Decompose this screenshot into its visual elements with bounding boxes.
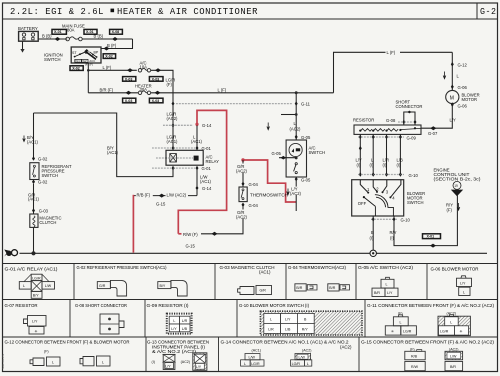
battery B1 [19, 31, 39, 41]
svg-text:(AC2): (AC2) [447, 312, 456, 316]
svg-text:G-03: G-03 [39, 208, 49, 213]
red junction dot G-14 [195, 123, 198, 126]
direction arrow L/Y [287, 189, 290, 195]
svg-text:R/W (F): R/W (F) [183, 232, 198, 237]
red junction dot thermoswitch top [241, 158, 244, 161]
svg-text:G-14 CONNECTOR BETWEEN A/C NO.: G-14 CONNECTOR BETWEEN A/C NO.1 (AC1) & … [221, 340, 350, 345]
svg-text:(AC1): (AC1) [252, 349, 261, 353]
svg-text:X-03: X-03 [125, 77, 133, 81]
svg-text:HEATER & AIR CONDITIONER: HEATER & AIR CONDITIONER [117, 6, 258, 17]
svg-text:G-14: G-14 [202, 123, 212, 128]
svg-text:R/Y: R/Y [302, 328, 309, 332]
svg-text:80A: 80A [67, 27, 75, 32]
svg-text:G-05: G-05 [301, 177, 311, 182]
svg-text:L: L [102, 361, 104, 365]
legend grid borders [3, 264, 498, 372]
connector marker G-01 left top [172, 146, 175, 151]
legend G-11 connector AC2 [438, 312, 470, 336]
svg-text:L/Y: L/Y [387, 291, 393, 295]
wire thermoswitch top [242, 160, 244, 187]
svg-text:G-01: G-01 [202, 166, 212, 171]
svg-text:SWITCH: SWITCH [407, 200, 424, 205]
wire G-05 left stub [279, 157, 296, 159]
svg-text:LG/R: LG/R [440, 330, 449, 334]
svg-text:G-14: G-14 [202, 186, 212, 191]
svg-text:B (F): B (F) [107, 43, 117, 48]
connector marker G-02 top [32, 156, 35, 161]
wire A/C switch feed vertical [295, 93, 297, 140]
ignition switch SW1 [71, 47, 101, 63]
svg-text:L/R: L/R [182, 319, 188, 323]
svg-text:2.2L: EGI & 2.6L: 2.2L: EGI & 2.6L [10, 6, 104, 17]
connector marker G-01 right top [196, 146, 199, 151]
connector arrow 2 [112, 37, 118, 41]
wire label G/R (AC2) bottom [237, 210, 250, 219]
connector marker G-11 right [295, 101, 298, 106]
red nub at R/W label [178, 233, 181, 235]
svg-text:L/B: L/B [285, 328, 291, 332]
title bar G-2 divider [476, 3, 478, 19]
wire L (AC1) vertical [196, 127, 198, 151]
connector marker G-11 left [172, 101, 175, 106]
svg-text:L/Y: L/Y [450, 118, 456, 123]
B/Y loop wire top [34, 113, 174, 177]
svg-text:R/B: R/B [411, 355, 418, 359]
connector box X-01 a [52, 29, 66, 34]
thermoswitch box [239, 187, 247, 202]
legend G-01 connector [19, 274, 54, 298]
svg-text:G-02: G-02 [38, 156, 48, 161]
svg-text:X-02: X-02 [105, 55, 113, 59]
wire ignition switch down [87, 63, 89, 93]
svg-text:LG/R: LG/R [403, 330, 412, 334]
svg-text:(I): (I) [383, 163, 388, 168]
legend G-15 connector AC2 [445, 351, 463, 370]
direction arrow B/Y [23, 136, 26, 142]
svg-text:L/Y: L/Y [285, 318, 291, 322]
connector box X-03 a1 [123, 77, 136, 82]
svg-text:S00-X0-PS: S00-X0-PS [1, 354, 5, 369]
legend G-03 connector [238, 286, 272, 295]
svg-text:L/W: L/W [450, 355, 457, 359]
svg-text:L (F): L (F) [218, 87, 227, 92]
wire corner down to B(F) [101, 39, 133, 49]
connector marker G-08 b [414, 120, 417, 125]
svg-text:THERMOSWITCH: THERMOSWITCH [250, 192, 288, 197]
connector marker G-14 lower [196, 186, 199, 191]
wire R/B (F) label [136, 192, 153, 197]
legend G-12 connector a [30, 357, 60, 366]
svg-text:IG1: IG1 [75, 59, 80, 63]
junction dot stub [295, 113, 298, 116]
wire label L (F) top [386, 49, 401, 55]
svg-text:L/R: L/R [268, 328, 274, 332]
G-01 dotted link top [152, 147, 197, 149]
connector box X-03 b2 [149, 98, 163, 103]
legend G-13 connector b [193, 353, 207, 371]
svg-text:B: B [371, 230, 374, 235]
svg-text:RESISTOR: RESISTOR [353, 118, 374, 123]
svg-text:L: L [52, 361, 54, 365]
svg-text:L/B: L/B [182, 327, 188, 331]
svg-text:M: M [450, 95, 454, 101]
svg-text:X-03: X-03 [152, 77, 160, 81]
svg-text:G-10: G-10 [401, 218, 411, 223]
G-10 dotted link top [358, 174, 404, 176]
connector marker G-03 [32, 208, 35, 213]
svg-text:L: L [244, 362, 246, 366]
svg-text:G-15: G-15 [186, 243, 196, 248]
connector marker G-14 on L [196, 123, 199, 128]
battery ground arrow [20, 49, 24, 53]
connector markers G-09 row [359, 135, 362, 140]
junction dot inside A/C switch [295, 157, 298, 160]
svg-text:G-15: G-15 [156, 202, 166, 207]
svg-text:R/B (F): R/B (F) [137, 193, 151, 198]
svg-text:L: L [463, 290, 465, 294]
svg-text:L: L [270, 318, 272, 322]
svg-text:X-01: X-01 [86, 30, 94, 34]
svg-text:B/R: B/R [329, 286, 335, 290]
svg-text:LG/R: LG/R [32, 276, 41, 280]
svg-text:X-03: X-03 [125, 99, 133, 103]
wire up corner to top L(F) run [334, 52, 453, 93]
svg-text:BP: BP [94, 51, 99, 55]
svg-text:G-01 A/C RELAY (AC1): G-01 A/C RELAY (AC1) [5, 267, 59, 272]
svg-text:L/W: L/W [249, 356, 256, 360]
G-11 dotted link [176, 103, 292, 105]
svg-text:G-11: G-11 [301, 101, 311, 106]
connector markers G-10 bottom [372, 217, 375, 222]
connector marker G-01 left bottom [172, 166, 175, 171]
connector marker G-06 top [451, 85, 454, 90]
svg-text:R/W: R/W [411, 365, 419, 369]
svg-text:(AC1): (AC1) [27, 139, 39, 144]
svg-text:B (B): B (B) [94, 34, 104, 39]
legend G-08 connector [100, 314, 124, 334]
resistor box [354, 125, 421, 134]
red wire R/B to ground bus [132, 195, 134, 253]
svg-text:L/Y: L/Y [32, 320, 38, 324]
battery ground wire [22, 41, 24, 49]
blower motor [446, 90, 459, 103]
connector arrow L(F) [127, 68, 133, 72]
svg-text:G-02: G-02 [38, 180, 48, 185]
svg-text:BATTERY: BATTERY [18, 26, 38, 31]
svg-text:B/R (F): B/R (F) [100, 87, 114, 92]
svg-text:X-01: X-01 [427, 235, 435, 239]
connector marker G-01 right bottom [196, 166, 199, 171]
wire R/Y to ECU [394, 196, 457, 246]
wire blower feed down [451, 52, 453, 90]
svg-text:& A/C NO.2 (AC2): & A/C NO.2 (AC2) [152, 349, 197, 354]
svg-text:B/Y: B/Y [160, 284, 166, 288]
wire L/W below relay [196, 168, 198, 196]
svg-text:(I): (I) [397, 163, 402, 168]
ECU triangle [451, 190, 463, 197]
svg-text:L/Y: L/Y [165, 364, 171, 368]
main fuse F1 [66, 37, 82, 41]
svg-text:G-05: G-05 [301, 135, 311, 140]
wire L/W (AC2) label [166, 192, 189, 197]
legend G-13 connector a [163, 354, 175, 369]
svg-text:R/Y: R/Y [390, 230, 397, 235]
svg-text:X-03: X-03 [152, 99, 160, 103]
connector markers G-10 row [359, 172, 362, 177]
wire fuse to X-08 [82, 38, 132, 40]
svg-text:G/R: G/R [260, 289, 267, 293]
svg-text:ST: ST [72, 51, 77, 55]
svg-text:G-06: G-06 [458, 85, 468, 90]
G-08 dotted link [398, 121, 413, 123]
svg-text:L: L [173, 319, 175, 323]
connector arrow G-07 [430, 126, 436, 130]
svg-text:L/W: L/W [45, 284, 52, 288]
svg-text:(I): (I) [370, 163, 375, 168]
svg-text:B/R: B/R [296, 286, 302, 290]
wire A/C switch output down [295, 179, 297, 211]
svg-text:CLUTCH: CLUTCH [39, 220, 56, 225]
A/C switch box [286, 140, 306, 177]
wire label L/Y (AC2) [290, 187, 300, 195]
svg-text:G-2: G-2 [480, 6, 497, 17]
wire heater fuse long L(F) [151, 92, 334, 94]
direction arrow L blower [443, 72, 446, 79]
svg-text:L: L [386, 283, 388, 287]
svg-text:G-06 BLOWER MOTOR: G-06 BLOWER MOTOR [431, 267, 479, 272]
svg-text:G/R: G/R [99, 284, 106, 288]
svg-text:G-09: G-09 [407, 136, 417, 141]
connector box X-08 [110, 29, 123, 34]
ECU pin circle 19 [453, 181, 461, 189]
resistor output wires [359, 134, 361, 175]
ground junction circle [370, 250, 376, 256]
svg-text:L/W: L/W [299, 356, 306, 360]
body ground symbol [4, 250, 17, 257]
legend G-14 connector b [291, 354, 312, 367]
connector marker G-12 [451, 62, 454, 67]
svg-text:(F) (F): (F) (F) [85, 63, 93, 67]
legend G-10 connector [260, 311, 362, 335]
wire battery to main fuse [38, 38, 67, 40]
connector marker G-05 bottom [295, 177, 298, 182]
connector marker on L/Y output [359, 146, 362, 151]
heater fuse 30A [138, 91, 150, 95]
svg-text:(I): (I) [152, 360, 155, 364]
refrigerant pressure switch [30, 163, 39, 180]
wire A/C fuse to corner [151, 70, 173, 148]
connector marker G-04 top [242, 182, 245, 187]
svg-text:G-05: G-05 [272, 151, 282, 156]
svg-text:(I): (I) [390, 236, 395, 241]
connector box X-02 right [103, 54, 115, 59]
svg-text:G-07 RESISTOR: G-07 RESISTOR [5, 303, 38, 308]
G-09 dotted link [358, 136, 404, 138]
svg-text:G-10: G-10 [409, 173, 419, 178]
connector box X-03 a2 [149, 77, 163, 82]
connector marker G-05 top [295, 135, 298, 140]
svg-text:G-04: G-04 [249, 182, 259, 187]
legend G-06 connector [457, 276, 472, 296]
svg-text:L/Y: L/Y [460, 281, 466, 285]
G-14 dotted link [163, 124, 193, 126]
connector marker G-04 bottom [242, 203, 245, 208]
svg-text:(AC2): (AC2) [302, 349, 311, 353]
wire label G/R (AC2) top [237, 164, 250, 173]
wire B/R(F) to heater fuse [88, 92, 138, 94]
legend G-07 connector [24, 316, 47, 335]
connector arrow B(F) [104, 47, 110, 51]
svg-text:(AC2): (AC2) [167, 116, 179, 121]
A/C relay box [156, 150, 203, 165]
svg-text:OFF: OFF [358, 201, 367, 206]
connector marker G-06 bottom [451, 102, 454, 107]
connector marker G-08 a [402, 120, 405, 125]
svg-text:(AC1): (AC1) [167, 139, 179, 144]
legend G-14 connector a [241, 354, 264, 367]
stub wire at A/C switch feed [281, 114, 296, 116]
svg-text:G-04 THERMOSWITCH(AC2): G-04 THERMOSWITCH(AC2) [288, 265, 347, 270]
svg-text:(AC2): (AC2) [290, 191, 302, 196]
svg-text:L: L [450, 320, 452, 324]
svg-text:(AC1): (AC1) [200, 179, 212, 184]
wire pressure switch to clutch [33, 184, 35, 214]
svg-text:G-08 SHORT CONNECTOR: G-08 SHORT CONNECTOR [75, 303, 127, 308]
svg-text:B (B): B (B) [42, 34, 52, 39]
svg-text:19: 19 [454, 184, 458, 188]
svg-text:(AC2): (AC2) [340, 344, 352, 349]
svg-text:LG/R: LG/R [292, 362, 301, 366]
wire branch L(F) [88, 69, 137, 71]
legend G-11 connector F [385, 312, 416, 336]
svg-text:G-04: G-04 [249, 203, 259, 208]
connector box X-01 ecu [423, 234, 441, 239]
svg-text:L: L [307, 362, 309, 366]
svg-text:X-08: X-08 [112, 30, 120, 34]
wire L/W (AC2) horizontal [133, 195, 197, 197]
magnetic clutch [30, 214, 38, 227]
svg-text:G-06: G-06 [458, 103, 468, 108]
connector marker G-02 bottom [32, 180, 35, 185]
svg-text:L/Y: L/Y [171, 327, 177, 331]
connector box X-01 b [84, 29, 97, 34]
svg-text:(AC2): (AC2) [236, 169, 248, 174]
legend G-02 connector a [97, 280, 126, 296]
svg-text:G-08: G-08 [386, 118, 396, 123]
title bar rule [3, 18, 498, 20]
connector box X-03 b1 [123, 98, 136, 103]
svg-text:LG/R: LG/R [251, 362, 260, 366]
svg-text:G-12: G-12 [458, 62, 468, 67]
connector arrow G-15 lower [212, 232, 218, 236]
legend G-05 connector [372, 277, 398, 296]
ground bus [20, 252, 488, 254]
wire motor to resistor [421, 104, 452, 129]
svg-text:(I): (I) [357, 163, 362, 168]
svg-text:MOTOR: MOTOR [462, 97, 478, 102]
junction dot switch tee [87, 69, 90, 72]
svg-text:RELAY: RELAY [206, 159, 220, 164]
svg-text:(F): (F) [447, 208, 453, 213]
svg-text:(F): (F) [44, 350, 49, 354]
connector arrow after heater fuse [155, 91, 161, 95]
direction arrow L (AC2) [267, 123, 270, 130]
svg-text:(SECTION B-2c, 3c): (SECTION B-2c, 3c) [434, 177, 482, 182]
wire thermoswitch bottom [201, 205, 243, 234]
svg-text:(AC2): (AC2) [181, 360, 190, 364]
connector arrow B/R [126, 91, 132, 95]
svg-text:(AC1): (AC1) [107, 150, 119, 155]
G-01 dotted link bottom [152, 167, 197, 169]
svg-text:SWITCH: SWITCH [309, 150, 326, 155]
wire B/Y left vertical [33, 113, 35, 158]
short connector loop [404, 112, 415, 125]
svg-text:B/R: B/R [374, 291, 380, 295]
svg-text:B/Y: B/Y [33, 294, 39, 298]
svg-text:B/R: B/R [450, 365, 456, 369]
svg-text:X-01: X-01 [54, 30, 62, 34]
wire clutch to ground bus [33, 227, 35, 253]
svg-text:(AC1): (AC1) [191, 139, 203, 144]
connector marker G-05 left [281, 156, 287, 160]
svg-text:G-10 BLOWER MOTOR SWITCH (I): G-10 BLOWER MOTOR SWITCH (I) [239, 303, 310, 308]
svg-text:G-05 A/C SWITCH (AC2): G-05 A/C SWITCH (AC2) [358, 265, 414, 270]
connector marker G-15 [159, 194, 165, 198]
connector marker on short loop [407, 111, 411, 114]
connector box X-02 bottom [70, 66, 83, 71]
svg-text:G-02 REFRIGERANT PRESSURE SWIT: G-02 REFRIGERANT PRESSURE SWITCH(AC1) [77, 265, 167, 270]
svg-text:(F): (F) [167, 82, 173, 87]
title bullet [111, 9, 115, 13]
legend G-15 connector F [405, 350, 425, 371]
red path thermoswitch to A/C switch [243, 160, 296, 202]
wire B to ground [372, 216, 374, 250]
A/C fuse 10A [138, 68, 150, 72]
legend G-02 connector b [158, 280, 187, 296]
blower motor switch box [352, 180, 404, 216]
svg-text:G-15 CONNECTOR BETWEEN FRONT (: G-15 CONNECTOR BETWEEN FRONT (F) & A/C N… [361, 340, 495, 345]
junction dot L(F) branch [295, 91, 298, 94]
svg-text:L: L [400, 320, 402, 324]
legend G-09 connector [167, 314, 192, 334]
svg-text:(AC1): (AC1) [259, 270, 271, 275]
connector arrow after A/C fuse [155, 68, 161, 72]
svg-text:G-11 CONNECTOR BETWEEN FRONT (: G-11 CONNECTOR BETWEEN FRONT (F) & A/C N… [367, 303, 495, 308]
svg-text:L/W (AC2): L/W (AC2) [167, 193, 187, 198]
svg-text:CONNECTOR: CONNECTOR [396, 104, 423, 109]
svg-text:L (F): L (F) [103, 65, 112, 70]
G-10 dotted link bottom [371, 218, 397, 220]
svg-text:(AC2): (AC2) [236, 215, 248, 220]
svg-text:L (F): L (F) [387, 50, 396, 55]
svg-text:G-09 RESISTOR (I): G-09 RESISTOR (I) [147, 303, 190, 308]
svg-text:SWITCH: SWITCH [44, 57, 61, 62]
svg-text:SWITCH: SWITCH [42, 173, 59, 178]
svg-text:(AC2): (AC2) [290, 126, 302, 131]
svg-text:L: L [23, 284, 25, 288]
red path G-14 to A/C switch feed [178, 110, 226, 233]
svg-text:G-12 CONNECTOR BETWEEN FRONT (: G-12 CONNECTOR BETWEEN FRONT (F) & BLOWE… [5, 340, 130, 345]
connector marker G-14 on LG/R [172, 123, 175, 128]
connector arrow [55, 37, 61, 41]
svg-text:G-07: G-07 [428, 131, 438, 136]
svg-text:L/Y: L/Y [196, 365, 202, 369]
direction arrow R/Y [457, 203, 460, 210]
svg-text:X-02: X-02 [72, 67, 80, 71]
connector arrow on R/Y [430, 244, 436, 248]
svg-text:(I): (I) [370, 236, 375, 241]
legend G-04 connector a [295, 284, 317, 291]
